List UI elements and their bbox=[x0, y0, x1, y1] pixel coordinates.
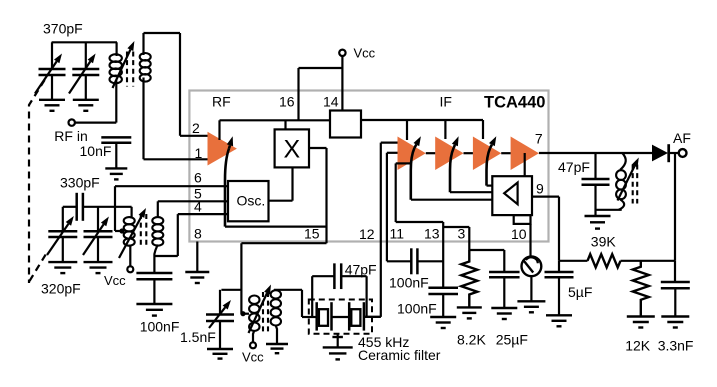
svg-text:100nF: 100nF bbox=[389, 274, 429, 290]
svg-text:2: 2 bbox=[192, 120, 200, 136]
svg-text:Vcc: Vcc bbox=[242, 350, 264, 365]
svg-text:Vcc: Vcc bbox=[354, 46, 376, 61]
svg-text:Ceramic filter: Ceramic filter bbox=[358, 347, 441, 363]
svg-text:47pF: 47pF bbox=[558, 159, 590, 175]
svg-text:16: 16 bbox=[279, 94, 295, 110]
svg-text:Osc.: Osc. bbox=[237, 193, 266, 209]
svg-text:39K: 39K bbox=[591, 233, 617, 249]
svg-text:8.2K: 8.2K bbox=[457, 332, 486, 348]
svg-text:6: 6 bbox=[194, 169, 202, 185]
svg-text:Vcc: Vcc bbox=[104, 273, 126, 288]
svg-text:100nF: 100nF bbox=[397, 300, 437, 316]
svg-text:12: 12 bbox=[359, 226, 375, 242]
svg-text:100nF: 100nF bbox=[140, 319, 180, 335]
svg-text:AF: AF bbox=[673, 130, 691, 146]
svg-text:13: 13 bbox=[424, 226, 440, 242]
svg-text:8: 8 bbox=[194, 226, 202, 242]
svg-text:10nF: 10nF bbox=[80, 143, 112, 159]
svg-text:320pF: 320pF bbox=[41, 281, 81, 297]
svg-text:1.5nF: 1.5nF bbox=[180, 329, 216, 345]
svg-text:7: 7 bbox=[535, 130, 543, 146]
svg-text:RF in: RF in bbox=[54, 128, 87, 144]
svg-text:10: 10 bbox=[511, 226, 527, 242]
svg-text:15: 15 bbox=[304, 226, 320, 242]
svg-text:X: X bbox=[284, 135, 301, 163]
svg-text:14: 14 bbox=[323, 94, 339, 110]
svg-text:RF: RF bbox=[212, 94, 231, 110]
svg-text:9: 9 bbox=[536, 181, 544, 197]
svg-text:1: 1 bbox=[195, 145, 203, 161]
svg-text:47pF: 47pF bbox=[345, 262, 377, 278]
svg-text:11: 11 bbox=[390, 226, 405, 242]
svg-text:330pF: 330pF bbox=[60, 175, 100, 191]
svg-text:370pF: 370pF bbox=[43, 21, 83, 37]
svg-text:IF: IF bbox=[440, 94, 452, 110]
svg-text:25µF: 25µF bbox=[496, 332, 528, 348]
svg-text:3.3nF: 3.3nF bbox=[658, 338, 694, 354]
svg-text:5µF: 5µF bbox=[568, 284, 592, 300]
svg-text:12K: 12K bbox=[625, 338, 651, 354]
svg-text:TCA440: TCA440 bbox=[484, 93, 545, 111]
